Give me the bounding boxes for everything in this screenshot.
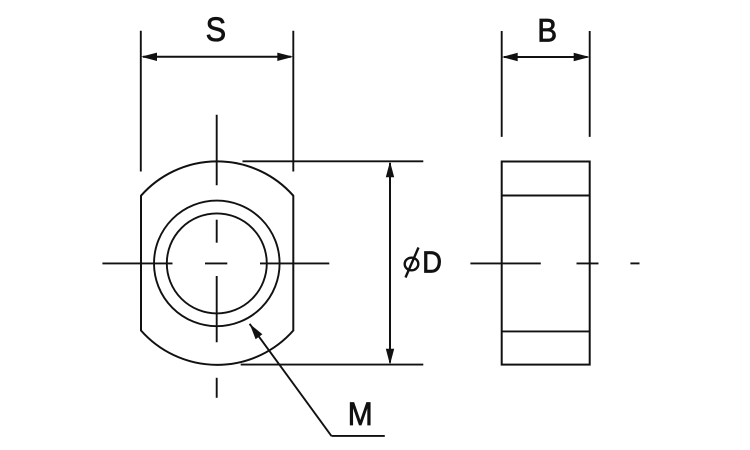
vertical centerline upper dash (front view) — [216, 220, 218, 243]
dimension S right extension line — [292, 31, 294, 172]
thread leader arrowhead — [250, 324, 263, 339]
thread leader underline (M callout) — [331, 435, 384, 437]
side view bottom chamfer line — [502, 330, 590, 332]
svg-text:B: B — [537, 12, 557, 49]
dimension S right arrowhead — [277, 53, 293, 61]
dimension B right arrowhead — [574, 53, 590, 61]
vertical centerline lower segment (front view) — [216, 276, 218, 342]
side view body rectangle — [502, 162, 590, 365]
dimension B right extension line — [589, 31, 591, 137]
horizontal centerline right segment (front view) — [260, 262, 329, 264]
side view centerline end dash — [630, 262, 639, 264]
svg-text:S: S — [206, 9, 226, 48]
label phi symbol (drawn circle with slash) — [405, 248, 419, 278]
side view top chamfer line — [502, 195, 590, 197]
vertical centerline top segment (front view) — [216, 115, 218, 185]
dimension B left arrowhead — [502, 53, 518, 61]
dimension phiD top extension line — [243, 160, 424, 162]
nut body outline (front view, circle with two side flats) — [141, 161, 293, 364]
dimension phiD line — [389, 163, 391, 363]
thread major diameter circle — [154, 201, 280, 327]
dimension phiD bottom arrowhead — [386, 349, 394, 365]
svg-text:D: D — [422, 246, 442, 280]
dimension phiD top arrowhead — [386, 162, 394, 178]
dimension S left arrowhead — [141, 53, 157, 61]
side view centerline left segment — [470, 262, 540, 264]
tap hole circle — [167, 213, 267, 313]
dimension B left extension line — [501, 31, 503, 137]
horizontal centerline left segment (front view) — [102, 262, 172, 264]
horizontal centerline center dash (front view) — [205, 262, 227, 264]
dimension S left extension line — [140, 31, 142, 172]
dimension S line — [143, 56, 291, 58]
svg-text:M: M — [348, 396, 373, 432]
dimension B line — [504, 56, 588, 58]
thread leader line (M callout) — [250, 324, 332, 436]
side view centerline right segment — [577, 262, 599, 264]
dimension phiD bottom extension line — [241, 364, 424, 366]
vertical centerline bottom dash (front view) — [216, 378, 218, 398]
